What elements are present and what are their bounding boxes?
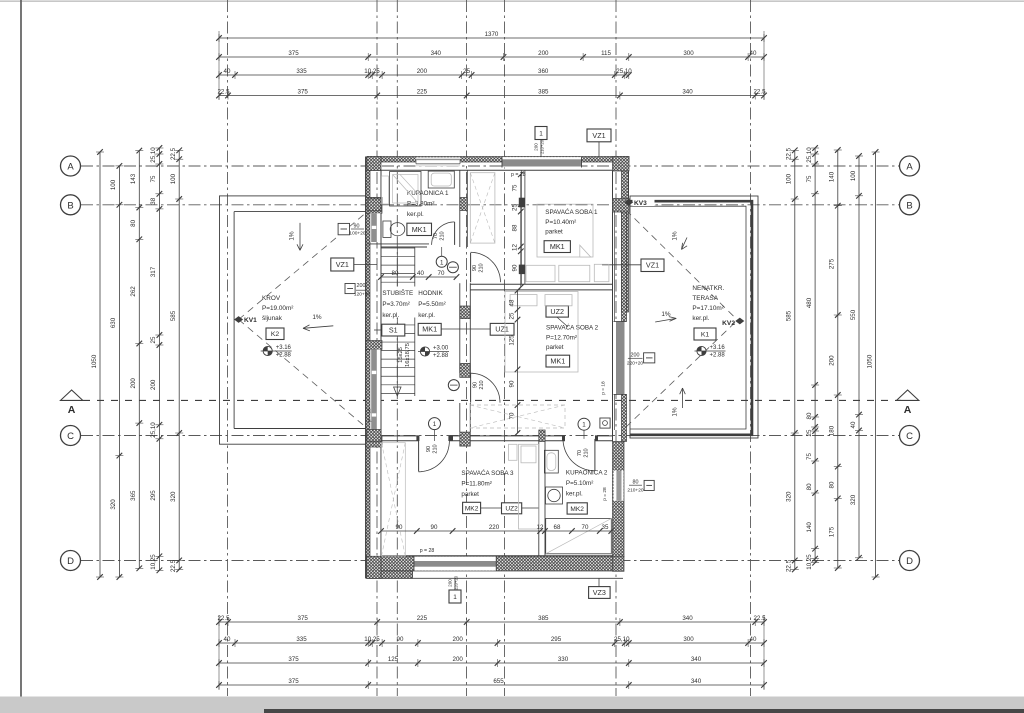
svg-text:200: 200 bbox=[538, 50, 549, 57]
svg-text:1%: 1% bbox=[672, 407, 679, 417]
svg-text:125: 125 bbox=[388, 656, 399, 663]
svg-text:100: 100 bbox=[170, 173, 177, 184]
svg-text:48: 48 bbox=[508, 299, 515, 306]
svg-text:200: 200 bbox=[534, 143, 539, 151]
svg-text:655: 655 bbox=[493, 678, 504, 685]
svg-text:+3.16: +3.16 bbox=[276, 345, 292, 351]
svg-text:UZ1: UZ1 bbox=[495, 325, 509, 334]
svg-text:P=10.40m²: P=10.40m² bbox=[545, 219, 576, 226]
svg-text:25: 25 bbox=[463, 68, 470, 75]
svg-text:80: 80 bbox=[392, 270, 399, 277]
svg-text:385: 385 bbox=[538, 88, 549, 95]
corner blocks hatched bbox=[367, 157, 381, 171]
wall at axis C bbox=[381, 435, 419, 437]
terasa inner line bbox=[630, 206, 746, 429]
svg-text:75: 75 bbox=[806, 453, 813, 460]
kup2 wc bbox=[544, 450, 558, 473]
svg-text:320: 320 bbox=[110, 499, 117, 510]
soba2 MK1 label bbox=[546, 355, 570, 367]
svg-text:ker.pl.: ker.pl. bbox=[382, 312, 399, 319]
right exterior wall lower bbox=[622, 394, 627, 441]
svg-text:90: 90 bbox=[431, 524, 438, 531]
svg-text:120+90: 120+90 bbox=[354, 292, 370, 298]
svg-text:80: 80 bbox=[806, 483, 813, 490]
svg-text:585: 585 bbox=[170, 310, 177, 321]
kup2 washbasin bbox=[546, 487, 563, 504]
krov inner outline bbox=[234, 211, 367, 213]
soba1/soba2 partition bbox=[470, 283, 612, 285]
right dim chain 1050 bbox=[875, 152, 877, 577]
right exterior wall upper bbox=[622, 157, 629, 312]
pier at hodnik/soba3 junction bbox=[460, 432, 471, 446]
svg-text:ker.pl.: ker.pl. bbox=[418, 312, 435, 319]
svg-text:+3.00: +3.00 bbox=[433, 346, 449, 352]
svg-text:90: 90 bbox=[508, 380, 515, 387]
soba3 UZ2 label bbox=[502, 503, 522, 514]
svg-text:10,25: 10,25 bbox=[150, 554, 157, 570]
bottom exterior wall bbox=[367, 556, 624, 571]
svg-text:15x25: 15x25 bbox=[398, 347, 404, 363]
svg-text:360: 360 bbox=[538, 68, 549, 75]
window tag 1 bottom bbox=[449, 590, 461, 603]
svg-text:480: 480 bbox=[806, 297, 813, 308]
door jambs at soba3 door bbox=[416, 436, 419, 441]
svg-text:40: 40 bbox=[750, 636, 757, 643]
svg-text:200: 200 bbox=[453, 656, 464, 663]
bottom dimension row 375/125/200/330/340 bbox=[219, 662, 764, 664]
svg-text:335: 335 bbox=[296, 68, 307, 75]
svg-text:p = 18: p = 18 bbox=[601, 381, 607, 395]
svg-text:320: 320 bbox=[170, 491, 177, 502]
svg-text:25: 25 bbox=[806, 429, 813, 436]
svg-text:P=19.00m²: P=19.00m² bbox=[262, 305, 293, 312]
terasa label K1 bbox=[694, 328, 716, 340]
svg-text:90: 90 bbox=[512, 264, 519, 271]
svg-text:12: 12 bbox=[537, 524, 544, 531]
svg-text:225: 225 bbox=[417, 615, 428, 622]
svg-text:C: C bbox=[906, 431, 913, 442]
soba3 nightstand bbox=[509, 444, 518, 460]
bottom dark strip bbox=[264, 709, 1024, 713]
left wall pier at B bbox=[366, 197, 382, 213]
hodnik elevation marker bbox=[420, 347, 429, 356]
right dim chain 140/275/200/180/80/175 bbox=[837, 150, 839, 568]
svg-text:VZ1: VZ1 bbox=[592, 131, 605, 140]
right wall window soba2 (dark) bbox=[614, 322, 627, 395]
svg-text:25: 25 bbox=[150, 336, 157, 343]
svg-text:200: 200 bbox=[357, 283, 366, 289]
svg-text:35: 35 bbox=[602, 524, 609, 531]
svg-text:ker.pl.: ker.pl. bbox=[407, 211, 424, 218]
terasa parapet thick line bbox=[630, 201, 752, 435]
svg-text:140: 140 bbox=[806, 522, 813, 533]
left exterior wall bbox=[366, 157, 370, 578]
svg-text:140: 140 bbox=[829, 171, 836, 182]
svg-text:70: 70 bbox=[582, 524, 589, 531]
svg-text:40: 40 bbox=[750, 50, 757, 57]
svg-text:25,10: 25,10 bbox=[616, 68, 632, 75]
soba3 dim row 90/90/220/12/68/70/35 bbox=[381, 530, 611, 532]
VZ1 label left bbox=[331, 258, 354, 271]
right dim chain 100/550/40/320 bbox=[858, 156, 860, 558]
svg-text:+3.16: +3.16 bbox=[710, 345, 726, 351]
kupaonica1 MK1 label bbox=[407, 223, 432, 235]
axis B left pier bbox=[368, 199, 381, 211]
section line A-A bbox=[83, 399, 901, 401]
krov label K2 bbox=[266, 328, 284, 340]
kupaonica1 south wall bbox=[367, 243, 429, 245]
bottom dimension row 375/655/340 bbox=[219, 684, 764, 686]
svg-text:1050: 1050 bbox=[91, 354, 98, 368]
left dim chain 22.5/100/585/320 bbox=[178, 150, 180, 569]
svg-text:p = 28: p = 28 bbox=[602, 487, 608, 501]
svg-text:MK1: MK1 bbox=[422, 325, 437, 334]
svg-text:1: 1 bbox=[453, 594, 457, 601]
switch symbol near kup1 door bbox=[447, 262, 458, 273]
svg-text:630: 630 bbox=[110, 317, 117, 328]
svg-text:210+20: 210+20 bbox=[627, 488, 643, 494]
terasa drain KV2 bbox=[735, 318, 744, 325]
svg-text:320: 320 bbox=[850, 494, 857, 505]
kup1 wc bbox=[383, 221, 391, 237]
svg-text:75: 75 bbox=[806, 175, 813, 182]
window tag 1 top bbox=[535, 127, 547, 140]
soba2 bed bbox=[505, 292, 578, 373]
svg-text:275: 275 bbox=[829, 258, 836, 269]
svg-text:S1: S1 bbox=[389, 326, 398, 335]
axis C left pier bbox=[367, 430, 381, 442]
svg-text:220+20: 220+20 bbox=[453, 575, 458, 590]
svg-text:25: 25 bbox=[508, 312, 515, 319]
svg-text:SPAVAĆA SOBA 3: SPAVAĆA SOBA 3 bbox=[461, 468, 514, 477]
svg-text:1%: 1% bbox=[289, 231, 296, 241]
vertical grid axes (dash-dot) bbox=[227, 0, 229, 696]
svg-text:B: B bbox=[906, 200, 912, 211]
left wall window kupaonica1 bbox=[370, 213, 380, 242]
svg-text:+2.88: +2.88 bbox=[276, 352, 292, 358]
svg-text:25: 25 bbox=[512, 204, 519, 211]
svg-text:MK2: MK2 bbox=[465, 505, 479, 512]
svg-text:340: 340 bbox=[431, 50, 442, 57]
terasa roof slope dashed diagonals bbox=[626, 210, 737, 320]
door soba2 bbox=[470, 373, 472, 402]
svg-text:A: A bbox=[906, 162, 913, 173]
svg-text:10,25: 10,25 bbox=[364, 68, 380, 75]
svg-text:70: 70 bbox=[433, 233, 439, 239]
kup1 sink bbox=[428, 171, 454, 188]
top page edge line bbox=[0, 0, 1024, 2]
leader MK1-UZ1 bbox=[441, 328, 490, 330]
svg-text:P=11.80m²: P=11.80m² bbox=[461, 481, 492, 488]
VZ1 label right bbox=[641, 259, 664, 272]
svg-text:B: B bbox=[67, 200, 73, 211]
svg-text:80: 80 bbox=[633, 480, 639, 486]
kupaonica2 MK2 label bbox=[567, 503, 587, 514]
svg-text:75: 75 bbox=[150, 175, 157, 182]
bottom dimension row 40/335/10/25/90/200/295/25/10/300/40 bbox=[219, 642, 764, 644]
svg-text:1%: 1% bbox=[672, 231, 679, 241]
svg-text:1: 1 bbox=[539, 130, 543, 137]
svg-text:115: 115 bbox=[601, 50, 611, 57]
top dimension row 1370 bbox=[219, 37, 764, 39]
svg-text:parket: parket bbox=[545, 229, 563, 236]
svg-text:KUPAONICA 2: KUPAONICA 2 bbox=[566, 470, 608, 477]
svg-text:C: C bbox=[67, 431, 74, 442]
hodnik partition wall bbox=[459, 283, 461, 373]
svg-text:75: 75 bbox=[512, 184, 519, 191]
svg-text:40: 40 bbox=[224, 636, 231, 643]
svg-text:A: A bbox=[904, 404, 912, 416]
outlet box (right wall) bbox=[601, 418, 603, 420]
left wall pier mid bbox=[366, 341, 382, 350]
left dim chain 100/630/320 bbox=[118, 166, 120, 577]
soba1 MK1 label bbox=[544, 241, 570, 253]
svg-text:25,10: 25,10 bbox=[150, 147, 157, 163]
svg-text:MK1: MK1 bbox=[550, 242, 565, 251]
svg-text:1%: 1% bbox=[312, 314, 322, 321]
window tag kup1 left bbox=[338, 223, 349, 234]
vestibule/soba1 partition bbox=[520, 170, 522, 284]
svg-text:100: 100 bbox=[110, 179, 117, 190]
stair centerline with arrow bbox=[396, 248, 398, 388]
svg-text:220: 220 bbox=[489, 524, 500, 531]
VZ3 label bottom bbox=[589, 587, 611, 599]
svg-text:p = 28: p = 28 bbox=[511, 172, 526, 178]
svg-text:šljunak: šljunak bbox=[262, 315, 283, 322]
svg-text:SPAVAĆA SOBA 1: SPAVAĆA SOBA 1 bbox=[545, 207, 598, 216]
drain KV3 (on top) bbox=[633, 198, 655, 207]
bottom wall window soba3 (dark) bbox=[414, 557, 496, 571]
krov elevation marker bbox=[263, 346, 272, 355]
terasa outer outline bbox=[630, 196, 758, 438]
svg-text:+2.88: +2.88 bbox=[433, 353, 449, 359]
left dim chain 143/80/262/200/365 bbox=[138, 151, 140, 569]
svg-text:200: 200 bbox=[150, 379, 157, 390]
svg-text:375: 375 bbox=[288, 656, 299, 663]
svg-text:22.5: 22.5 bbox=[170, 147, 177, 160]
door tag circle 1 (kup1) bbox=[436, 256, 447, 267]
svg-text:22.5: 22.5 bbox=[786, 147, 793, 160]
svg-text:225: 225 bbox=[417, 88, 428, 95]
kup1 shower bbox=[390, 172, 421, 207]
svg-text:1: 1 bbox=[433, 421, 437, 428]
svg-text:200: 200 bbox=[453, 636, 464, 643]
svg-text:40: 40 bbox=[850, 421, 857, 428]
svg-text:P=17.10m²: P=17.10m² bbox=[692, 305, 723, 312]
soba2 desk dashed bbox=[470, 405, 565, 428]
vestibule closet bbox=[470, 173, 495, 243]
svg-text:MK1: MK1 bbox=[550, 357, 565, 366]
door kupaonica1 bbox=[454, 222, 456, 245]
svg-text:90: 90 bbox=[354, 223, 360, 229]
svg-text:175: 175 bbox=[829, 526, 836, 537]
svg-text:340: 340 bbox=[682, 615, 693, 622]
soba3/kup2 partition bbox=[538, 442, 540, 557]
svg-text:210+20: 210+20 bbox=[539, 139, 544, 154]
svg-text:25,10: 25,10 bbox=[150, 422, 157, 438]
svg-text:180: 180 bbox=[829, 425, 836, 436]
svg-text:p = 28: p = 28 bbox=[420, 548, 435, 554]
svg-text:80: 80 bbox=[806, 412, 813, 419]
svg-text:VZ1: VZ1 bbox=[336, 260, 349, 269]
svg-text:70: 70 bbox=[508, 412, 515, 419]
svg-text:200: 200 bbox=[631, 353, 640, 359]
svg-text:p = 18: p = 18 bbox=[367, 408, 373, 422]
svg-text:K2: K2 bbox=[271, 331, 280, 338]
switch symbol near soba2 door bbox=[448, 380, 459, 391]
UZ1 label bbox=[490, 323, 514, 335]
svg-text:143: 143 bbox=[130, 173, 137, 184]
svg-text:68: 68 bbox=[554, 524, 561, 531]
svg-text:210: 210 bbox=[433, 444, 439, 453]
soba1 dresser row bbox=[526, 265, 555, 281]
svg-text:parket: parket bbox=[461, 491, 479, 498]
svg-text:1050: 1050 bbox=[866, 354, 873, 368]
svg-text:300: 300 bbox=[683, 50, 694, 57]
svg-text:125: 125 bbox=[508, 335, 515, 346]
horizontal grid axes A-D bbox=[81, 165, 899, 167]
svg-text:88: 88 bbox=[512, 224, 519, 231]
kup2 shower bbox=[546, 519, 612, 554]
svg-text:90: 90 bbox=[473, 382, 479, 388]
svg-text:22.5: 22.5 bbox=[170, 559, 177, 572]
svg-text:375: 375 bbox=[288, 50, 299, 57]
svg-text:1370: 1370 bbox=[485, 31, 499, 38]
svg-text:320: 320 bbox=[786, 491, 793, 502]
bottom-left corner block bbox=[367, 556, 382, 578]
svg-text:210: 210 bbox=[479, 380, 485, 389]
svg-text:210: 210 bbox=[479, 263, 485, 272]
svg-text:22.5: 22.5 bbox=[217, 88, 230, 95]
krov drain KV1 bbox=[234, 316, 243, 323]
svg-text:40: 40 bbox=[224, 68, 231, 75]
svg-text:550: 550 bbox=[850, 309, 857, 320]
svg-text:KV1: KV1 bbox=[244, 317, 257, 324]
svg-text:90: 90 bbox=[426, 446, 432, 452]
soba3 wardrobe bbox=[382, 443, 406, 556]
left dim chain 75/38/317/25/200/295 bbox=[158, 148, 160, 570]
svg-text:22.5: 22.5 bbox=[217, 615, 230, 622]
svg-text:VZ3: VZ3 bbox=[593, 588, 606, 597]
svg-text:P=5.10m²: P=5.10m² bbox=[566, 480, 593, 487]
right dim chain 75/480/80/75/80/140 bbox=[814, 148, 816, 563]
svg-text:NENATKR.: NENATKR. bbox=[692, 285, 724, 292]
axis bubbles bbox=[61, 156, 81, 176]
svg-text:38: 38 bbox=[150, 197, 157, 204]
svg-text:MK2: MK2 bbox=[570, 506, 584, 513]
hodnik dim 80/40/70 bbox=[381, 276, 457, 278]
svg-text:25,10: 25,10 bbox=[614, 636, 630, 643]
svg-text:ker.pl.: ker.pl. bbox=[692, 315, 709, 322]
VZ1 label top bbox=[587, 129, 611, 142]
outlet box (kup2 top) bbox=[600, 418, 610, 428]
svg-text:340: 340 bbox=[691, 656, 702, 663]
right exterior wall kup2 bbox=[613, 442, 625, 557]
top dimension row 40/335/10/25/200/25/360/25/10 bbox=[219, 74, 629, 76]
svg-text:A: A bbox=[68, 404, 76, 416]
svg-text:STUBIŠTE: STUBIŠTE bbox=[382, 288, 413, 297]
svg-text:375: 375 bbox=[288, 678, 299, 685]
svg-text:340: 340 bbox=[691, 678, 702, 685]
svg-text:330: 330 bbox=[558, 656, 569, 663]
left page border line bbox=[20, 0, 22, 697]
svg-text:100: 100 bbox=[786, 173, 793, 184]
right wall window kup2 (gray) bbox=[614, 471, 624, 501]
svg-text:KV3: KV3 bbox=[634, 200, 647, 207]
right dim chain 22.5/100/585/320 bbox=[794, 150, 796, 569]
svg-text:12: 12 bbox=[512, 244, 519, 251]
svg-text:375: 375 bbox=[298, 615, 309, 622]
svg-text:40: 40 bbox=[417, 270, 424, 277]
door kupaonica2 bbox=[594, 439, 596, 471]
interior dim chain vertical upper bbox=[520, 174, 522, 287]
left wall pier at C bbox=[366, 436, 382, 447]
interior dim chain vertical lower bbox=[517, 291, 519, 433]
krov outer outline bbox=[220, 196, 368, 444]
door soba3 bbox=[418, 441, 420, 472]
stubiste S1 label bbox=[382, 324, 405, 336]
svg-text:TERASA: TERASA bbox=[692, 295, 718, 302]
top dimension row 375/340/200/115/300/40 bbox=[219, 56, 764, 58]
soba3 bed bbox=[519, 444, 540, 529]
svg-text:200: 200 bbox=[130, 378, 137, 389]
top wall window kupaonica1 bbox=[416, 157, 460, 166]
svg-text:70: 70 bbox=[577, 450, 583, 456]
svg-text:295: 295 bbox=[150, 490, 157, 501]
svg-text:10,25: 10,25 bbox=[364, 636, 380, 643]
svg-text:200: 200 bbox=[417, 68, 428, 75]
svg-text:P=5.50m²: P=5.50m² bbox=[418, 301, 445, 308]
door jambs at kup2 door bbox=[562, 436, 565, 441]
svg-text:D: D bbox=[906, 556, 913, 567]
svg-text:200: 200 bbox=[448, 579, 453, 587]
svg-text:90: 90 bbox=[472, 265, 478, 271]
top exterior wall bbox=[367, 157, 629, 163]
svg-text:1: 1 bbox=[582, 422, 586, 429]
svg-text:200: 200 bbox=[829, 355, 836, 366]
svg-text:262: 262 bbox=[130, 286, 137, 297]
left wall window stair/hodnik bbox=[370, 349, 380, 435]
svg-text:1: 1 bbox=[440, 259, 444, 266]
pier at soba3/kup2 junction bbox=[539, 430, 545, 442]
svg-text:parket: parket bbox=[546, 344, 564, 351]
svg-text:VZ1: VZ1 bbox=[646, 261, 659, 270]
soba2 UZ2 label bbox=[546, 306, 568, 317]
svg-text:16x18,75: 16x18,75 bbox=[405, 343, 411, 367]
left dim chain 1050 bbox=[99, 152, 101, 577]
svg-text:100: 100 bbox=[850, 170, 857, 181]
svg-text:335: 335 bbox=[296, 636, 307, 643]
svg-text:SPAVAĆA SOBA 2: SPAVAĆA SOBA 2 bbox=[546, 323, 599, 332]
bottom-right corner block bbox=[613, 556, 625, 571]
svg-text:D: D bbox=[67, 556, 74, 567]
svg-text:70: 70 bbox=[438, 270, 445, 277]
svg-text:340: 340 bbox=[682, 88, 693, 95]
svg-text:P=3.70m²: P=3.70m² bbox=[382, 301, 409, 308]
door vestibule (from hodnik) bbox=[470, 253, 472, 282]
kup1 small cab bbox=[382, 176, 389, 204]
svg-text:317: 317 bbox=[150, 266, 157, 277]
bottom gray band bbox=[0, 697, 1024, 713]
svg-text:210: 210 bbox=[584, 448, 590, 457]
staircase steps bbox=[381, 247, 415, 249]
top dimension row 22.5/375/225/385/340/22.5 bbox=[219, 95, 764, 97]
svg-text:UZ2: UZ2 bbox=[550, 307, 564, 316]
kupaonica1 east wall bbox=[459, 170, 461, 247]
svg-text:385: 385 bbox=[538, 615, 549, 622]
svg-text:90: 90 bbox=[397, 636, 404, 643]
svg-text:25,10: 25,10 bbox=[806, 147, 813, 163]
